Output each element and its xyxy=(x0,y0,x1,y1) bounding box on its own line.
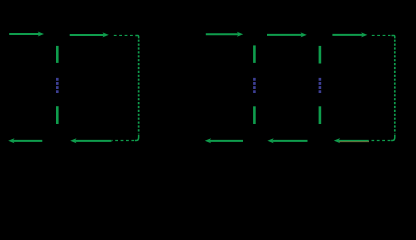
wire: right diagram bottom arrow 3 overlap line (olive) xyxy=(338,141,369,143)
wire: right diagram right vertical dashed return path xyxy=(394,40,396,134)
wire: left diagram bottom-right solid elbow xyxy=(135,135,139,141)
wire: left diagram top arrow 2 (node to server) xyxy=(70,32,109,37)
wire: right diagram top-right solid elbow xyxy=(392,35,395,38)
node: right diagram first node upper green segment xyxy=(253,45,256,63)
wire: left diagram bottom arrow 2 (server back to node) xyxy=(70,138,111,143)
node: right diagram first node lower green segment xyxy=(253,106,256,124)
wire: left diagram top dashed segment xyxy=(114,34,134,36)
wire: left diagram top-right solid elbow xyxy=(135,35,138,38)
node: left diagram middle node lower green segment xyxy=(56,106,59,124)
wire: left diagram right vertical dashed return path xyxy=(138,40,140,134)
node: left diagram middle node blue dashed segment xyxy=(56,78,59,93)
wire: left diagram bottom arrow 1 (node back to client) xyxy=(8,138,42,143)
node: right diagram second node lower green segment xyxy=(319,106,322,124)
wire: right diagram bottom dashed segment xyxy=(372,140,391,142)
wire: right diagram bottom arrow 1 xyxy=(205,138,243,143)
wire: right diagram top arrow 1 xyxy=(206,32,243,37)
wire: right diagram top arrow 3 xyxy=(332,32,367,37)
wire: right diagram bottom-right solid elbow xyxy=(391,135,395,141)
wire: right diagram top dashed segment xyxy=(372,34,391,36)
wire: right diagram top arrow 2 xyxy=(267,32,307,37)
node: right diagram second node blue dashed segment xyxy=(319,78,322,93)
wire: right diagram bottom arrow 3 xyxy=(334,138,369,143)
wire: right diagram bottom arrow 2 xyxy=(267,138,307,143)
node: right diagram first node blue dashed segment xyxy=(253,78,256,93)
node: right diagram second node upper green segment xyxy=(319,46,322,64)
node: left diagram middle node upper green segment xyxy=(56,46,59,63)
wire: left diagram bottom dashed segment xyxy=(112,140,134,142)
wire: left diagram top arrow 1 (request, client to node) xyxy=(9,32,44,37)
